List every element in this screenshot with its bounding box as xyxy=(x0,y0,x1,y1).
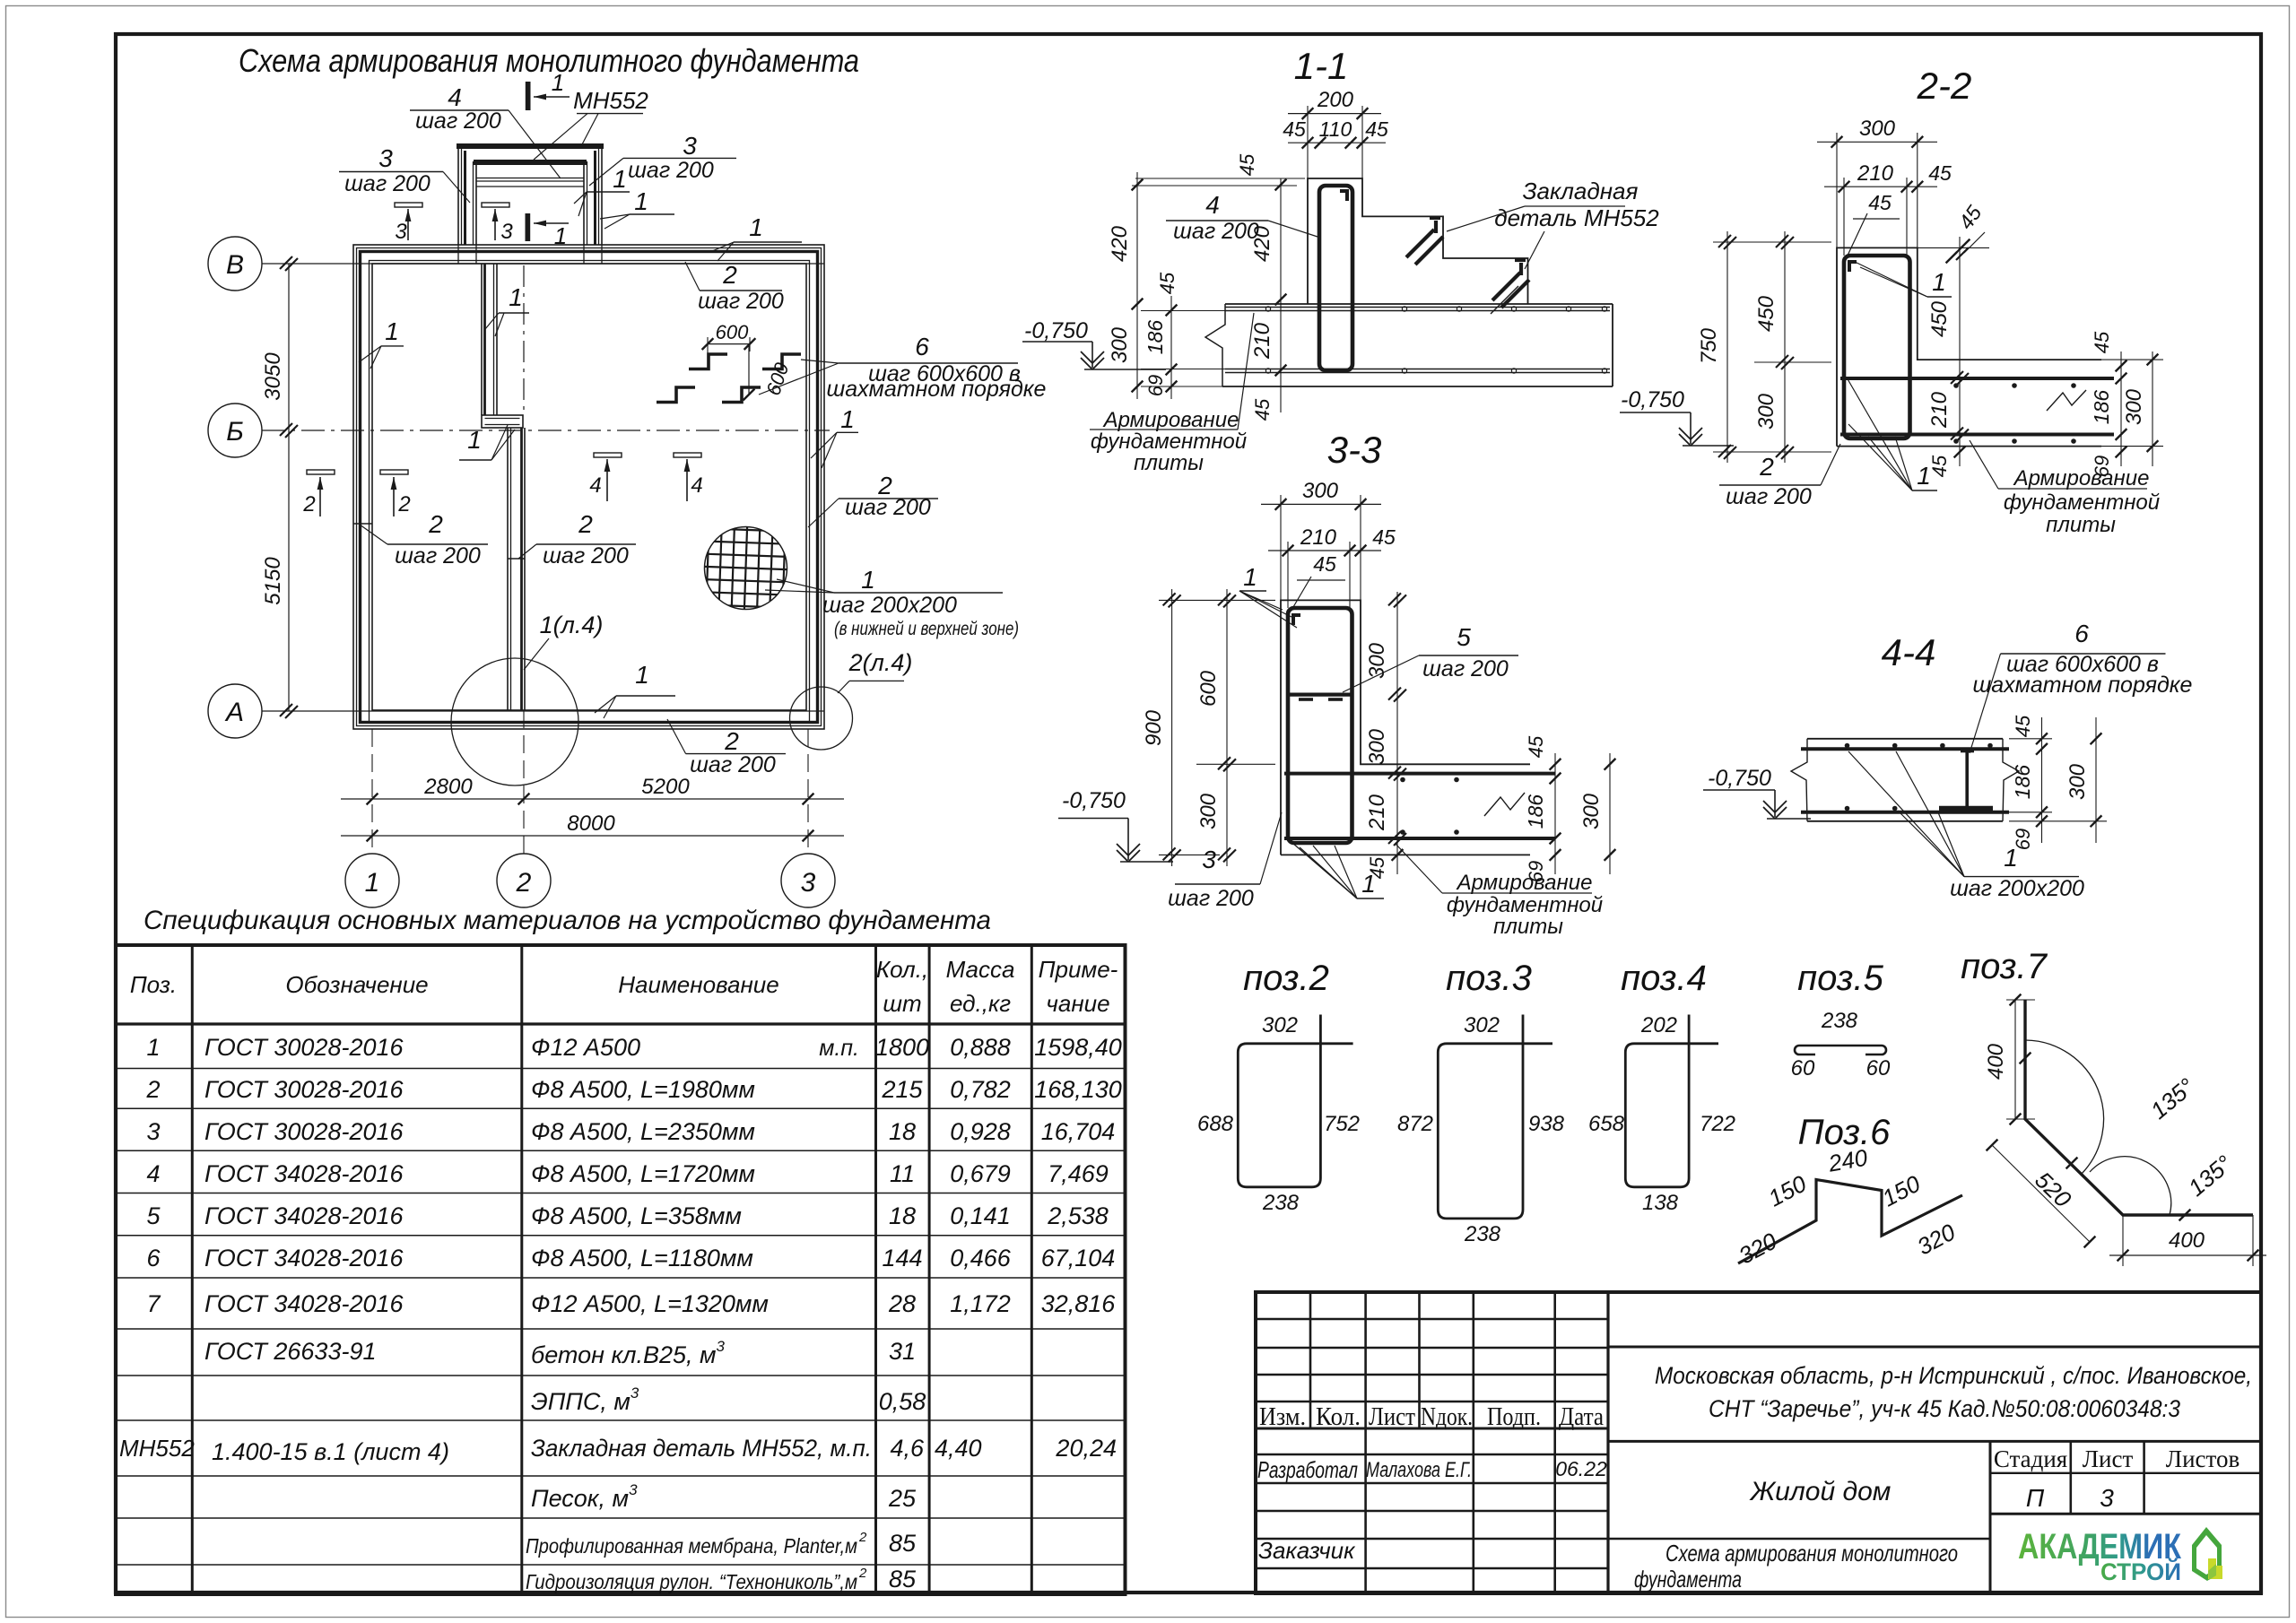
section 2-2 slab top rebar xyxy=(1840,377,2114,380)
title block vertical dividers full height xyxy=(1364,1292,1367,1593)
section 4-4 rebar dots xyxy=(1845,743,1850,749)
title block main divider xyxy=(1606,1292,1609,1593)
svg-text:0,782: 0,782 xyxy=(950,1076,1011,1103)
plan axis circle 2 xyxy=(497,854,551,907)
svg-text:85: 85 xyxy=(889,1566,917,1593)
svg-text:шаг 200: шаг 200 xyxy=(1726,484,1812,509)
section 1-1 dim 200 top xyxy=(1307,106,1309,178)
svg-text:18: 18 xyxy=(889,1118,916,1145)
plan bottom axis extension lines xyxy=(371,729,373,854)
svg-text:400: 400 xyxy=(1984,1043,2008,1080)
поз.7 angle arcs 135 xyxy=(2025,1040,2104,1175)
svg-text:45: 45 xyxy=(1928,455,1951,477)
svg-text:302: 302 xyxy=(1464,1013,1500,1037)
section 3-3 dim 210 45 xyxy=(1287,542,1289,608)
svg-text:18: 18 xyxy=(889,1202,916,1229)
svg-text:2: 2 xyxy=(302,492,315,516)
plan section cut marker 1 inside bump-out xyxy=(526,213,531,241)
svg-text:300: 300 xyxy=(1579,793,1604,829)
svg-text:1: 1 xyxy=(385,317,399,345)
svg-text:шаг 200: шаг 200 xyxy=(1168,886,1254,911)
svg-text:2: 2 xyxy=(858,1530,867,1545)
title block stage columns xyxy=(1989,1441,1992,1593)
svg-text:плиты: плиты xyxy=(1134,451,1204,475)
plan outer wall - second line xyxy=(357,248,822,726)
svg-text:69: 69 xyxy=(2012,829,2034,850)
svg-text:Армирование: Армирование xyxy=(2013,466,2150,490)
svg-text:5: 5 xyxy=(146,1202,161,1229)
поз.4 bent bar shape xyxy=(1625,1015,1718,1187)
plan section cut marker 3 inside bump-out xyxy=(482,203,509,207)
svg-text:2,538: 2,538 xyxy=(1047,1202,1109,1229)
plan detail circle 2(л.4) xyxy=(790,687,853,750)
svg-text:1,172: 1,172 xyxy=(950,1290,1011,1317)
plan steps dim 600 horizontal xyxy=(708,343,750,345)
svg-text:Ф12 А500: Ф12 А500 xyxy=(531,1034,640,1061)
svg-text:Лист: Лист xyxy=(1369,1403,1415,1431)
svg-text:Жилой дом: Жилой дом xyxy=(1749,1477,1892,1506)
svg-text:938: 938 xyxy=(1528,1112,1565,1136)
svg-text:шт: шт xyxy=(883,990,921,1017)
svg-text:2: 2 xyxy=(722,261,737,289)
section 1-1 dim extension lines xyxy=(1135,178,1305,179)
svg-text:МН552: МН552 xyxy=(573,87,648,114)
section 1-1 cage hook xyxy=(1340,189,1349,193)
section 2-2 right dim 300 xyxy=(2152,352,2153,466)
svg-text:СНТ “Заречье”, уч-к 45 Кад.№50: СНТ “Заречье”, уч-к 45 Кад.№50:08:006034… xyxy=(1709,1395,2180,1422)
svg-text:Поз.6: Поз.6 xyxy=(1798,1113,1891,1152)
поз.3 bent bar shape xyxy=(1438,1015,1552,1219)
plan outer wall - outer face xyxy=(353,245,824,729)
svg-text:3050: 3050 xyxy=(261,352,285,401)
svg-text:1: 1 xyxy=(552,69,564,96)
svg-text:поз.4: поз.4 xyxy=(1621,959,1707,998)
section 4-4 поз.6 connector I-bar xyxy=(1965,751,1969,809)
svg-text:Схема армирования монолитног: Схема армирования монолитного фундамента xyxy=(239,42,859,79)
svg-text:28: 28 xyxy=(888,1290,916,1317)
svg-text:1.400-15 в.1 (лист 4): 1.400-15 в.1 (лист 4) xyxy=(212,1438,449,1465)
section 2-2 rebar dots xyxy=(1953,383,1959,388)
plan detail circle 1(л.4) xyxy=(451,658,578,785)
поз.7 dim 520 diagonal xyxy=(1992,1145,2090,1242)
svg-text:238: 238 xyxy=(1821,1009,1858,1033)
svg-text:300: 300 xyxy=(1302,479,1339,503)
svg-text:5: 5 xyxy=(1457,623,1471,651)
svg-text:0,58: 0,58 xyxy=(879,1388,926,1415)
plan axis circle 1 xyxy=(345,854,399,907)
svg-text:32,816: 32,816 xyxy=(1041,1290,1117,1317)
svg-text:Кол.,: Кол., xyxy=(876,956,928,983)
svg-text:Поз.: Поз. xyxy=(130,971,177,998)
svg-text:2(л.4): 2(л.4) xyxy=(848,649,913,676)
svg-text:186: 186 xyxy=(2011,765,2034,800)
section 2-2 left dim 750 xyxy=(1726,231,1728,463)
svg-text:2: 2 xyxy=(578,510,593,538)
svg-text:1: 1 xyxy=(1917,462,1931,490)
plan bump-out inner embedded plate MH552 xyxy=(474,160,587,165)
plan section cut marker 2 left room first xyxy=(307,470,335,474)
svg-text:45: 45 xyxy=(1928,161,1952,185)
svg-text:Наименование: Наименование xyxy=(618,971,778,998)
svg-text:210: 210 xyxy=(1927,391,1952,429)
svg-text:1: 1 xyxy=(509,283,523,311)
svg-text:450: 450 xyxy=(1927,300,1952,337)
svg-text:Листов: Листов xyxy=(2166,1445,2239,1472)
plan left vertical dimension line 3050/5150 xyxy=(288,264,290,711)
svg-text:300: 300 xyxy=(2122,388,2146,425)
svg-text:302: 302 xyxy=(1262,1013,1298,1037)
svg-text:Ф8 А500, L=1720мм: Ф8 А500, L=1720мм xyxy=(531,1160,755,1187)
svg-text:плиты: плиты xyxy=(2046,513,2116,537)
plan steps dim 600 vertical xyxy=(748,344,750,395)
svg-text:110: 110 xyxy=(1319,117,1352,141)
section 3-3 left dim 900 xyxy=(1171,589,1173,866)
svg-text:45: 45 xyxy=(1251,398,1274,421)
svg-text:фундамента: фундамента xyxy=(1634,1566,1742,1593)
svg-text:ГОСТ 34028-2016: ГОСТ 34028-2016 xyxy=(204,1160,404,1187)
svg-text:4: 4 xyxy=(691,473,702,498)
plan bump-out top embedded plate MH552 xyxy=(457,143,604,149)
svg-text:3: 3 xyxy=(1202,846,1216,873)
section 3-3 cage hook xyxy=(1291,613,1300,617)
plan section cut marker 1 top (above bump-out) xyxy=(526,82,531,110)
svg-text:5200: 5200 xyxy=(641,775,690,799)
section 4-4 right dim 300 xyxy=(2095,717,2097,843)
svg-text:85: 85 xyxy=(889,1530,917,1557)
svg-text:45: 45 xyxy=(1868,191,1892,214)
section 1-1 embedded plate at step 2 xyxy=(1519,263,1523,275)
svg-text:168,130: 168,130 xyxy=(1034,1076,1122,1103)
svg-text:-0,750: -0,750 xyxy=(1708,766,1771,791)
svg-text:-0,750: -0,750 xyxy=(1024,318,1088,343)
svg-text:шаг 200: шаг 200 xyxy=(344,171,430,196)
svg-text:Малахова Е.Г.: Малахова Е.Г. xyxy=(1366,1458,1472,1482)
svg-text:шаг 200: шаг 200 xyxy=(628,158,714,183)
svg-text:Nдок.: Nдок. xyxy=(1421,1403,1473,1431)
section 3-3 concrete outline xyxy=(1281,600,1530,855)
logo house icon xyxy=(2192,1527,2222,1581)
svg-text:фундаментной: фундаментной xyxy=(2004,490,2160,515)
svg-text:Заказчик: Заказчик xyxy=(1258,1537,1356,1564)
svg-text:чание: чание xyxy=(1046,990,1109,1017)
plan bottom dimension line 2800/5200 xyxy=(341,798,844,800)
svg-text:872: 872 xyxy=(1397,1112,1433,1136)
svg-text:Ф8 А500, L=2350мм: Ф8 А500, L=2350мм xyxy=(531,1118,755,1145)
svg-text:600: 600 xyxy=(1196,670,1221,707)
svg-text:0,466: 0,466 xyxy=(950,1245,1012,1271)
svg-text:1: 1 xyxy=(613,165,627,193)
svg-text:7,469: 7,469 xyxy=(1048,1160,1109,1187)
title block right horizontals xyxy=(1608,1346,2261,1349)
svg-text:4: 4 xyxy=(1205,191,1220,219)
section 3-3 slab bottom rebar xyxy=(1284,837,1555,840)
svg-text:658: 658 xyxy=(1588,1112,1625,1136)
поз.5 bent bar shape xyxy=(1795,1046,1886,1055)
plan step connector symbols (поз.6) xyxy=(689,354,727,369)
plan axis line Б (dash-dot) xyxy=(262,430,830,431)
svg-text:238: 238 xyxy=(1464,1222,1501,1246)
svg-text:А: А xyxy=(224,698,244,727)
svg-text:ГОСТ 34028-2016: ГОСТ 34028-2016 xyxy=(204,1202,404,1229)
svg-text:3: 3 xyxy=(395,220,407,244)
plan axis circle В xyxy=(208,237,262,291)
plan rebar mesh detail circle xyxy=(705,527,787,610)
svg-text:0,679: 0,679 xyxy=(950,1160,1011,1187)
section 1-1 concrete outline xyxy=(1308,178,1528,304)
section 3-3 dim 300 top xyxy=(1280,495,1282,600)
section 3-3 right dim 300 xyxy=(1609,753,1611,874)
plan axis 2 dash line inside plan xyxy=(523,265,525,414)
section 1-1 slab top rebar xyxy=(1225,307,1610,308)
svg-text:3: 3 xyxy=(378,144,393,172)
section 2-2 concrete outline xyxy=(1837,247,2101,446)
svg-text:Гидроизоляция рулон. “Техноник: Гидроизоляция рулон. “Технониколь”,м xyxy=(526,1570,857,1593)
svg-text:ЭППС, м3: ЭППС, м3 xyxy=(531,1384,639,1415)
plan section cut marker 2 left room second xyxy=(380,470,408,474)
plan bump-out inner formwork lines xyxy=(476,178,584,179)
plan interior wall lower (axis 2, below Б) xyxy=(507,428,509,710)
svg-text:600: 600 xyxy=(716,321,749,343)
svg-text:45: 45 xyxy=(1236,153,1258,176)
svg-text:поз.7: поз.7 xyxy=(1961,947,2048,986)
svg-text:шаг 200х200: шаг 200х200 xyxy=(822,593,957,618)
svg-text:0,928: 0,928 xyxy=(950,1118,1011,1145)
Поз.6 bent bar shape xyxy=(1738,1180,1962,1264)
svg-text:60: 60 xyxy=(1866,1056,1891,1081)
svg-text:1: 1 xyxy=(840,405,855,433)
svg-text:2: 2 xyxy=(428,510,443,538)
svg-text:поз.5: поз.5 xyxy=(1797,959,1884,998)
svg-text:3: 3 xyxy=(2100,1484,2114,1512)
svg-text:3: 3 xyxy=(801,868,816,898)
plan interior wall upper (axis 2, above Б) xyxy=(481,264,483,415)
svg-text:210: 210 xyxy=(1250,322,1274,360)
svg-text:ГОСТ 30028-2016: ГОСТ 30028-2016 xyxy=(204,1034,404,1061)
section 2-2 rebar cage xyxy=(1844,256,1910,438)
section 3-3 rebar cage xyxy=(1288,608,1352,843)
svg-text:Ф8 А500, L=358мм: Ф8 А500, L=358мм xyxy=(531,1202,742,1229)
svg-text:Песок, м3: Песок, м3 xyxy=(531,1481,638,1512)
svg-text:1: 1 xyxy=(861,566,875,594)
svg-text:П: П xyxy=(2026,1484,2045,1512)
plan bump-out left wall xyxy=(457,145,459,245)
svg-text:300: 300 xyxy=(1859,117,1896,141)
svg-text:186: 186 xyxy=(1524,794,1547,829)
section 3-3 dim 600/300 left xyxy=(1226,589,1228,866)
svg-text:шаг 200: шаг 200 xyxy=(395,543,481,568)
svg-text:шахматном порядке: шахматном порядке xyxy=(827,377,1047,402)
plan section cut marker 4 first xyxy=(594,453,622,457)
svg-text:шахматном порядке: шахматном порядке xyxy=(1973,673,2193,698)
section 3-3 dim 300/300/210/45 right of wall xyxy=(1396,592,1398,874)
svg-text:45: 45 xyxy=(1525,735,1547,758)
svg-text:Подп.: Подп. xyxy=(1487,1403,1541,1431)
svg-text:45: 45 xyxy=(1372,525,1396,549)
svg-text:4: 4 xyxy=(448,83,462,111)
plan section cut marker 3 left above plan xyxy=(395,203,422,207)
svg-text:(в нижней и верхней зоне): (в нижней и верхней зоне) xyxy=(834,619,1019,639)
поз.7 dim 400 vertical xyxy=(2014,1000,2016,1119)
section 2-2 dim 210 45 xyxy=(1843,178,1845,256)
svg-text:11: 11 xyxy=(890,1160,915,1187)
svg-text:45: 45 xyxy=(1313,552,1336,576)
svg-text:МН552: МН552 xyxy=(119,1435,195,1462)
svg-text:шаг 200х200: шаг 200х200 xyxy=(1950,876,2084,901)
section 4-4 bottom rebar xyxy=(1801,811,2009,814)
svg-text:300: 300 xyxy=(1365,642,1389,679)
svg-text:3: 3 xyxy=(146,1118,160,1145)
svg-text:2: 2 xyxy=(858,1566,867,1581)
section 1-1 far left dim column 420/300 xyxy=(1136,172,1138,399)
svg-text:Закладная деталь МН552, м.п.: Закладная деталь МН552, м.п. xyxy=(531,1435,872,1462)
svg-text:ГОСТ 26633-91: ГОСТ 26633-91 xyxy=(204,1338,377,1365)
svg-text:1: 1 xyxy=(1361,870,1376,898)
svg-text:Армирование: Армирование xyxy=(1102,408,1239,432)
svg-text:6: 6 xyxy=(915,333,929,360)
svg-text:06.22: 06.22 xyxy=(1555,1457,1607,1480)
title block outer frame xyxy=(1256,1292,2261,1593)
svg-text:шаг 200: шаг 200 xyxy=(415,108,501,134)
section 3-3 slab break mark xyxy=(1484,793,1525,816)
svg-text:плиты: плиты xyxy=(1493,915,1563,939)
svg-text:2: 2 xyxy=(516,868,532,898)
svg-text:210: 210 xyxy=(1300,525,1337,550)
plan axis circle А xyxy=(208,684,262,738)
svg-text:0,888: 0,888 xyxy=(950,1034,1011,1061)
svg-text:Московская область, р-н Истрин: Московская область, р-н Истринский , с/п… xyxy=(1655,1362,2252,1389)
svg-text:2: 2 xyxy=(397,492,410,516)
svg-text:В: В xyxy=(226,250,244,280)
section 3-3 right dim 45/186/69 xyxy=(1554,753,1556,874)
svg-text:6: 6 xyxy=(146,1245,161,1271)
svg-text:45: 45 xyxy=(2091,331,2113,353)
svg-text:4,6: 4,6 xyxy=(890,1435,925,1462)
svg-text:шаг 200: шаг 200 xyxy=(1422,656,1509,681)
section 2-2 dim 450/300 left xyxy=(1784,231,1786,463)
svg-text:Приме-: Приме- xyxy=(1039,956,1118,983)
plan interior wall upper end cap xyxy=(482,415,523,428)
section 1-1 embedded plate at step 1 xyxy=(1434,221,1438,233)
section 1-1 left dim column 420/210 xyxy=(1280,178,1282,412)
svg-text:300: 300 xyxy=(2066,763,2090,800)
section 1-1 slab bottom rebar xyxy=(1225,369,1610,370)
svg-text:СТРОЙ: СТРОЙ xyxy=(2100,1558,2181,1585)
svg-text:25: 25 xyxy=(888,1485,917,1512)
svg-text:186: 186 xyxy=(1144,320,1167,355)
svg-text:Б: Б xyxy=(226,417,244,447)
plan axis circle Б xyxy=(208,404,262,457)
plan bottom dimension line 8000 xyxy=(341,835,844,837)
svg-text:2: 2 xyxy=(145,1076,160,1103)
svg-text:Ф8 А500, L=1180мм: Ф8 А500, L=1180мм xyxy=(531,1245,753,1271)
svg-text:900: 900 xyxy=(1142,709,1166,746)
plan outer wall - rebar cage thick line xyxy=(361,252,818,723)
svg-text:20,24: 20,24 xyxy=(1055,1435,1117,1462)
plan outer wall - inner face pair xyxy=(370,261,810,723)
svg-text:ГОСТ 34028-2016: ГОСТ 34028-2016 xyxy=(204,1245,404,1271)
section 1-1 slab break line left xyxy=(1205,304,1225,386)
svg-text:1: 1 xyxy=(146,1034,160,1061)
svg-text:722: 722 xyxy=(1700,1112,1735,1136)
section 2-2 right dim 45/186/69 xyxy=(2120,352,2122,466)
svg-text:1: 1 xyxy=(1243,563,1257,591)
section 4-4 right dims 45/186/69 xyxy=(2041,717,2043,843)
svg-text:Схема армирования монолитного: Схема армирования монолитного xyxy=(1665,1540,1958,1567)
svg-text:1-1: 1-1 xyxy=(1294,45,1349,87)
svg-text:шаг 200: шаг 200 xyxy=(1173,219,1259,244)
section 2-2 dim 450/210/45 right of wall xyxy=(1959,237,1961,466)
svg-text:шаг 200: шаг 200 xyxy=(543,543,629,568)
svg-text:210: 210 xyxy=(1857,161,1894,186)
svg-text:Изм.: Изм. xyxy=(1259,1403,1306,1431)
svg-text:ГОСТ 30028-2016: ГОСТ 30028-2016 xyxy=(204,1076,404,1103)
plan section cut marker 4 second xyxy=(674,453,701,457)
section 3-3 cage middle rung xyxy=(1288,692,1352,696)
svg-text:6: 6 xyxy=(2074,620,2089,647)
svg-text:420: 420 xyxy=(1108,225,1132,262)
svg-text:Профилированная мембрана, Plan: Профилированная мембрана, Planter,м xyxy=(526,1534,857,1558)
plan bump-out right wall xyxy=(601,145,603,245)
title block left horizontals xyxy=(1256,1318,1608,1320)
svg-text:4-4: 4-4 xyxy=(1882,631,1936,673)
svg-text:Стадия: Стадия xyxy=(1994,1445,2067,1472)
svg-text:поз.2: поз.2 xyxy=(1243,959,1329,998)
plan bump-out wall joint ticks on top wall xyxy=(457,245,459,264)
svg-text:1(л.4): 1(л.4) xyxy=(540,612,604,638)
svg-text:1598,40: 1598,40 xyxy=(1034,1034,1122,1061)
svg-text:4: 4 xyxy=(146,1160,160,1187)
svg-text:бетон кл.В25, м3: бетон кл.В25, м3 xyxy=(531,1338,726,1368)
svg-text:400: 400 xyxy=(2169,1228,2205,1253)
svg-text:4,40: 4,40 xyxy=(935,1435,982,1462)
spec table grid xyxy=(116,945,1126,1594)
svg-text:2-2: 2-2 xyxy=(1917,65,1972,107)
svg-text:фундаментной: фундаментной xyxy=(1091,430,1247,454)
svg-text:шаг 200: шаг 200 xyxy=(845,495,931,520)
plan axis circle 3 xyxy=(781,854,835,907)
svg-text:Спецификация основных матери: Спецификация основных материалов на устр… xyxy=(143,906,991,935)
svg-text:шаг 200: шаг 200 xyxy=(698,289,784,314)
svg-text:2: 2 xyxy=(724,727,739,755)
svg-text:Обозначение: Обозначение xyxy=(285,971,428,998)
svg-text:Ф12 А500, L=1320мм: Ф12 А500, L=1320мм xyxy=(531,1290,769,1317)
svg-text:69: 69 xyxy=(1144,375,1167,396)
svg-text:фундаментной: фундаментной xyxy=(1447,893,1603,917)
svg-text:4: 4 xyxy=(589,473,601,498)
svg-text:752: 752 xyxy=(1324,1112,1360,1136)
section 3-3 rebar dots xyxy=(1400,777,1405,783)
svg-text:688: 688 xyxy=(1197,1112,1234,1136)
svg-text:-0,750: -0,750 xyxy=(1621,387,1684,412)
svg-text:0,141: 0,141 xyxy=(950,1202,1011,1229)
поз.2 bent bar shape xyxy=(1238,1015,1352,1187)
svg-text:1: 1 xyxy=(634,187,648,215)
svg-text:ГОСТ 30028-2016: ГОСТ 30028-2016 xyxy=(204,1118,404,1145)
section 4-4 top rebar xyxy=(1801,747,2009,751)
svg-text:Масса: Масса xyxy=(946,956,1015,983)
svg-text:Разработал: Разработал xyxy=(1257,1456,1358,1483)
svg-text:м.п.: м.п. xyxy=(819,1036,859,1061)
plan axis line В xyxy=(262,263,824,265)
svg-text:60: 60 xyxy=(1791,1056,1815,1081)
поз.7 bar ticks xyxy=(2020,1053,2031,1064)
svg-text:186: 186 xyxy=(2090,390,2113,425)
svg-text:45: 45 xyxy=(2012,715,2034,737)
svg-text:1: 1 xyxy=(749,213,763,241)
title block row to Жилой дом cell bottom xyxy=(1256,1538,1990,1541)
svg-text:300: 300 xyxy=(1196,793,1221,829)
svg-text:3: 3 xyxy=(500,220,513,244)
